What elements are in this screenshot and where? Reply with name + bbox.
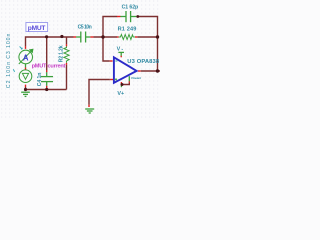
svg-text:A: A [23, 53, 29, 62]
svg-text:Vmeant: Vmeant [131, 76, 141, 80]
svg-text:R1 249: R1 249 [118, 26, 137, 32]
svg-text:C4 1n: C4 1n [37, 73, 43, 87]
svg-text:pMUT: pMUT [28, 25, 46, 32]
svg-text:R2 1.2k: R2 1.2k [58, 45, 64, 62]
svg-text:U3 OPA838: U3 OPA838 [127, 59, 160, 65]
svg-text:C3 100n: C3 100n [6, 33, 12, 58]
svg-text:pMUT current: pMUT current [32, 63, 66, 69]
svg-text:C5 10n: C5 10n [78, 25, 92, 31]
svg-text:C1 62p: C1 62p [122, 4, 139, 10]
svg-text:V+: V+ [117, 91, 124, 97]
svg-text:C2 100n: C2 100n [6, 62, 12, 89]
